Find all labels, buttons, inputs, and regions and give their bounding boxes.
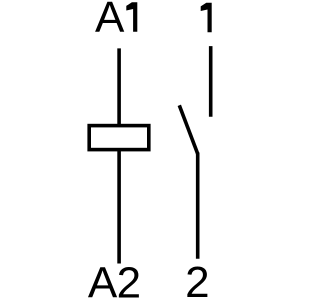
terminal label 1 (201, 3, 212, 33)
svg-text:2: 2 (185, 258, 209, 300)
wire: A1 terminal to coil top (117, 48, 121, 126)
svg-text:2: 2 (117, 259, 141, 300)
wire: coil bottom to A2 terminal (117, 150, 121, 264)
terminal label A1 : digit 1 (126, 2, 137, 32)
wire: blade pivot to terminal 2 (196, 153, 200, 259)
contact blade (NO switch, open) (179, 105, 197, 154)
coil K1 (rectangle) (89, 126, 149, 150)
wire: terminal 1 fixed contact (209, 46, 213, 117)
svg-text:A: A (88, 259, 118, 300)
svg-text:A: A (95, 0, 125, 42)
